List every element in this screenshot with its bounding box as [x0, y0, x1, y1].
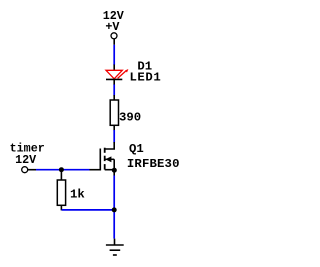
resistor 1k body	[57, 180, 65, 205]
transistor Q1 source lead	[105, 169, 115, 171]
LED D1 triangle	[106, 70, 122, 79]
resistor 390 top pin	[113, 95, 115, 100]
svg-text:1k: 1k	[70, 188, 85, 202]
svg-text:390: 390	[119, 111, 141, 125]
transistor Q1 channel bottom segment	[104, 164, 106, 170]
svg-text:+V: +V	[105, 20, 119, 34]
wire timer terminal to Q1 gate	[36, 169, 90, 171]
LED D1 cathode pin	[113, 79, 115, 85]
resistor 1k top pin	[60, 170, 62, 180]
wire Q1 source down to ground	[113, 176, 115, 239]
transistor Q1 channel middle segment	[104, 156, 106, 161]
transistor Q1 channel top segment	[104, 148, 106, 153]
junction source node	[112, 168, 117, 173]
svg-text:LED1: LED1	[129, 71, 161, 85]
wire resistor 390 to Q1 drain	[113, 130, 115, 143]
ground pin	[114, 239, 116, 245]
transistor Q1 bulk line	[106, 158, 115, 160]
svg-text:Q1: Q1	[129, 142, 144, 156]
transistor Q1 gate lead	[90, 169, 101, 171]
ground symbol	[106, 245, 124, 255]
resistor 1k bottom pin	[60, 205, 62, 210]
LED D1 cathode bar	[106, 78, 122, 80]
svg-text:12V: 12V	[15, 153, 36, 167]
resistor 390 bottom pin	[113, 125, 115, 130]
wire +V terminal to LED anode	[113, 45, 115, 65]
transistor Q1 bulk-to-source vertical	[113, 159, 115, 169]
input terminal timer	[22, 167, 28, 173]
transistor Q1 source pin	[113, 170, 115, 176]
transistor Q1 gate plate	[99, 149, 101, 171]
transistor Q1 bulk arrowhead	[105, 156, 111, 162]
LED D1 anode pin	[113, 65, 115, 71]
wire LED cathode to resistor 390	[113, 85, 115, 96]
wire 1k bottom to ground node	[62, 209, 114, 211]
junction ground node	[112, 207, 117, 212]
junction gate node	[59, 167, 64, 172]
svg-text:IRFBE30: IRFBE30	[127, 157, 180, 171]
pin from timer terminal	[28, 169, 36, 171]
LED D1 light emission arrow	[118, 69, 129, 78]
transistor Q1 drain lead	[105, 142, 115, 149]
pin from +V terminal	[113, 39, 115, 45]
power terminal +V	[111, 33, 117, 39]
resistor 390 body	[110, 100, 118, 125]
